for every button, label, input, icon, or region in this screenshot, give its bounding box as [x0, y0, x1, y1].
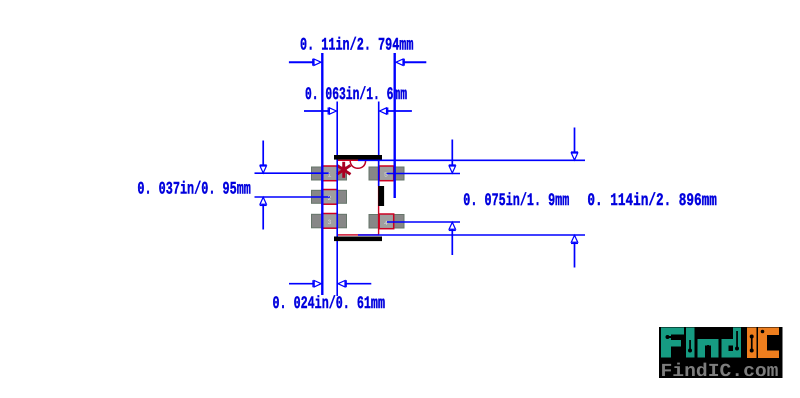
- silkscreen bar bottom: [334, 237, 382, 242]
- svg-text:4: 4: [384, 220, 388, 227]
- dimension arrow 0.063in left: [304, 110, 330, 112]
- pad 1 (copper land, left top): [312, 167, 347, 180]
- dimension arrow 0.114in down (x=574.5): [574, 128, 576, 154]
- svg-text:0. 063in/1. 6mm: 0. 063in/1. 6mm: [305, 85, 407, 105]
- logo circuit trace dots: [666, 330, 765, 353]
- dimension arrow 0.063in right: [387, 110, 412, 112]
- extension line V2 (x=394.6, 0.11in right): [394, 53, 396, 198]
- svg-text:0. 114in/2. 896mm: 0. 114in/2. 896mm: [587, 191, 717, 211]
- arrowhead base ticks: [260, 59, 578, 288]
- pin 1 marker asterisk: [337, 162, 351, 178]
- logo letter C (orange): [758, 328, 779, 359]
- package body outline: [337, 160, 378, 235]
- lead outline pin 1: [322, 166, 337, 181]
- lead outline pin 2: [322, 190, 337, 205]
- logo letter I (orange): [747, 328, 757, 359]
- svg-text:0. 037in/0. 95mm: 0. 037in/0. 95mm: [137, 180, 251, 200]
- logo letter F (teal): [661, 328, 684, 358]
- extension line V4 (x=378.7, 0.063in right): [378, 102, 380, 187]
- svg-text:5: 5: [384, 172, 388, 179]
- dimension arrow 0.075in down (x=452.3): [451, 140, 453, 167]
- svg-text:0. 024in/0. 61mm: 0. 024in/0. 61mm: [273, 294, 386, 314]
- dimension arrow 0.024in left: [289, 283, 314, 285]
- svg-text:0. 11in/2. 794mm: 0. 11in/2. 794mm: [300, 36, 414, 56]
- svg-text:1: 1: [328, 172, 332, 179]
- svg-text:3: 3: [328, 219, 332, 226]
- dimension arrow 0.11in left: [289, 61, 314, 63]
- silkscreen bar right: [378, 186, 384, 206]
- svg-text:FindIC.com: FindIC.com: [661, 361, 779, 382]
- dimension arrow 0.114in up (x=574.5): [574, 242, 576, 268]
- extension line pad1 center (y=173): [255, 172, 331, 174]
- silkscreen bar top: [334, 155, 382, 160]
- extension line pad5 center to right (y=173.5): [387, 173, 461, 175]
- logo letter i (teal): [686, 328, 695, 358]
- dimension arrow 0.024in right: [345, 283, 371, 285]
- logo background: [659, 327, 783, 378]
- extension line V1 (x=322.2, 0.11in left / 0.024in left): [321, 53, 323, 295]
- extension line V3 (x=337.2, 0.063in left / 0.024in right): [336, 102, 338, 297]
- extension line body top to right (y=160.3): [358, 159, 585, 161]
- pad 2 (copper land, left middle): [312, 190, 347, 203]
- pad 4 (copper land, right bottom): [369, 215, 404, 229]
- dimension arrow 0.11in right: [403, 61, 426, 63]
- dimension arrow 0.075in up (x=452.3): [451, 229, 453, 255]
- lead outline pin 3: [322, 214, 337, 229]
- svg-text:0. 075in/1. 9mm: 0. 075in/1. 9mm: [463, 191, 569, 211]
- svg-text:2: 2: [328, 195, 332, 202]
- orientation arc on body top edge: [350, 161, 365, 169]
- dimension arrow 0.037in down (x=263.2): [262, 141, 264, 167]
- dimension arrow 0.037in up (x=263.2): [262, 204, 264, 230]
- lead outline pin 5: [379, 166, 394, 181]
- logo letter d (teal): [722, 328, 742, 358]
- extension line body bottom to right (y=235): [358, 234, 585, 236]
- pad 3 (copper land, left bottom): [312, 214, 347, 228]
- extension line pad2 center (y=197): [255, 196, 331, 198]
- extension line pad4 center to right (y=222): [387, 221, 461, 223]
- lead outline pin 4: [379, 214, 394, 229]
- logo letter n (teal): [698, 339, 719, 358]
- pad 5 (copper land, right top): [369, 167, 404, 180]
